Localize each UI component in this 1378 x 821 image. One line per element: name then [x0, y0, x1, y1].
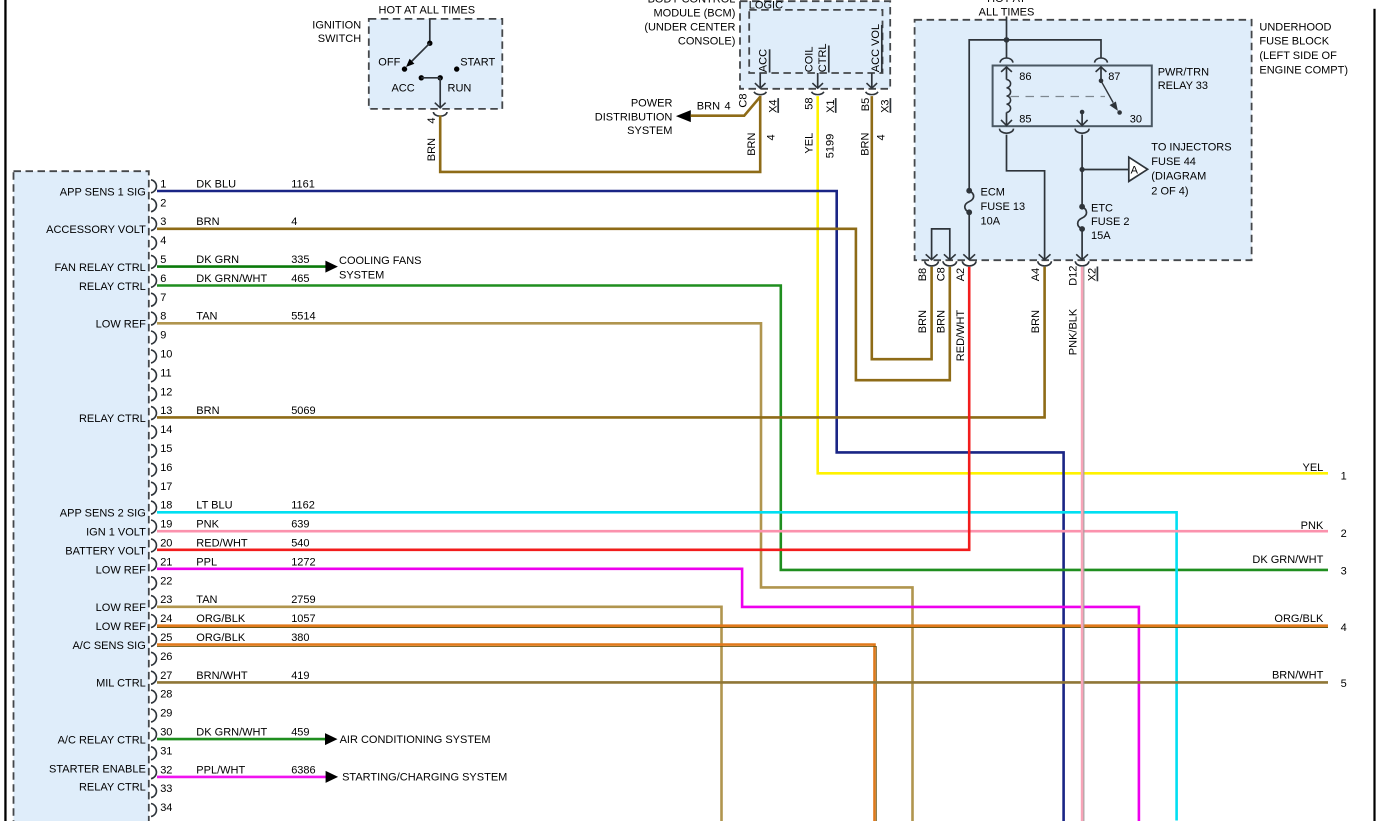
relay pin 85 arrow: [1001, 112, 1032, 125]
connector pin 29: [151, 708, 172, 722]
svg-text:SYSTEM: SYSTEM: [339, 269, 384, 281]
svg-text:APP SENS 1 SIG: APP SENS 1 SIG: [60, 186, 146, 198]
pin 23 wire labels TAN 2759: [196, 594, 315, 606]
pin 20 wire labels RED/WHT 540: [196, 538, 309, 550]
pin 19 wire labels PNK 639: [196, 519, 309, 531]
to injectors label: [1151, 142, 1231, 198]
svg-text:PWR/TRN: PWR/TRN: [1158, 67, 1209, 79]
svg-text:ETC: ETC: [1091, 202, 1113, 214]
svg-text:RELAY 33: RELAY 33: [1158, 80, 1208, 92]
svg-text:380: 380: [291, 632, 309, 644]
wire TAN 2759 pin 23: [157, 607, 722, 821]
svg-text:DK GRN/WHT: DK GRN/WHT: [1252, 554, 1323, 566]
svg-text:TAN: TAN: [196, 594, 217, 606]
connector pin 7: [151, 292, 166, 306]
svg-text:540: 540: [291, 538, 309, 550]
arrow to starting/charging system: [326, 771, 339, 783]
connector pin 2: [151, 197, 166, 211]
svg-text:1: 1: [1341, 471, 1347, 483]
svg-text:OFF: OFF: [378, 56, 400, 68]
connector pin 1: [151, 178, 166, 192]
wire RUN down to connector: [435, 78, 446, 108]
connector pin 6: [151, 273, 166, 287]
svg-text:18: 18: [160, 500, 172, 512]
BCM pin ACC VOL label: [870, 24, 882, 73]
svg-text:12: 12: [160, 386, 172, 398]
svg-text:BRN: BRN: [746, 133, 758, 156]
body control module BCM label: [644, 0, 735, 47]
connector pin 34: [151, 802, 172, 816]
svg-text:ACC: ACC: [758, 49, 770, 72]
svg-text:BODY CONTROL: BODY CONTROL: [648, 0, 736, 5]
contact RUN: [438, 75, 472, 94]
svg-text:26: 26: [160, 651, 172, 663]
svg-text:DK GRN: DK GRN: [196, 254, 239, 266]
svg-text:HOT AT: HOT AT: [987, 0, 1026, 5]
wire label BRN 4 (power dist): [697, 101, 731, 113]
BCM COIL CTRL arrow: [812, 73, 823, 88]
relay connector 87: [1095, 58, 1108, 63]
connector pin 19: [151, 519, 172, 533]
svg-text:32: 32: [160, 764, 172, 776]
connector pin 8: [151, 311, 166, 325]
relay contact 30: [1117, 110, 1142, 126]
junction node (injector tap): [1080, 167, 1085, 172]
underhood fuse block label: [1259, 22, 1348, 77]
connector pin 15: [151, 443, 172, 457]
svg-text:YEL: YEL: [1303, 462, 1324, 474]
svg-text:RUN: RUN: [448, 82, 472, 94]
off-page reference A (to injectors): [1129, 157, 1148, 181]
pin 32 wire labels PPL/WHT 6386: [196, 764, 315, 776]
svg-text:86: 86: [1019, 71, 1031, 83]
exit label PNK 2: [1301, 520, 1347, 540]
wire PNK 639 pin 19 to exit 2: [157, 530, 1328, 533]
svg-text:BRN: BRN: [1030, 310, 1042, 333]
svg-text:2759: 2759: [291, 594, 315, 606]
ignition switch label: [312, 19, 361, 45]
wire DK GRN/WHT 459 pin 30: [157, 738, 326, 741]
svg-text:19: 19: [160, 519, 172, 531]
svg-text:DK GRN/WHT: DK GRN/WHT: [196, 727, 267, 739]
contact OFF: [378, 56, 407, 71]
engine control module connector box: [14, 171, 149, 821]
wire BRN 4 pin 3 to fuse block C8: [157, 229, 950, 380]
svg-text:SYSTEM: SYSTEM: [627, 125, 672, 137]
connector pin 27: [151, 670, 172, 684]
pin 25 wire labels ORG/BLK 380: [196, 632, 309, 644]
svg-text:1161: 1161: [291, 178, 315, 190]
svg-text:BRN/WHT: BRN/WHT: [1272, 670, 1324, 682]
connector pin 28: [151, 689, 172, 703]
svg-text:RED/WHT: RED/WHT: [955, 310, 967, 362]
connector pin 13: [151, 405, 172, 419]
svg-text:PPL/WHT: PPL/WHT: [196, 764, 245, 776]
svg-text:87: 87: [1108, 71, 1120, 83]
svg-text:BRN: BRN: [860, 133, 872, 156]
BCM connector X3: [866, 92, 878, 95]
svg-text:AIR CONDITIONING SYSTEM: AIR CONDITIONING SYSTEM: [340, 734, 491, 746]
svg-text:APP SENS 2 SIG: APP SENS 2 SIG: [60, 508, 146, 520]
svg-text:FUSE 2: FUSE 2: [1091, 216, 1130, 228]
svg-text:2 OF 4): 2 OF 4): [1151, 185, 1188, 197]
svg-text:459: 459: [291, 727, 309, 739]
svg-text:419: 419: [291, 670, 309, 682]
fuse block connector B8: [925, 261, 939, 266]
jumper B8 to C8: [926, 229, 956, 260]
wire BRN 4 BCM X3 to fuse block B8: [872, 96, 932, 359]
svg-text:A/C SENS SIG: A/C SENS SIG: [72, 640, 145, 652]
svg-text:FUSE BLOCK: FUSE BLOCK: [1259, 36, 1329, 48]
svg-text:BRN: BRN: [196, 216, 219, 228]
connector pin 9: [151, 330, 166, 344]
connector pin 25: [151, 632, 172, 646]
svg-text:COIL: COIL: [803, 47, 815, 73]
svg-text:RELAY CTRL: RELAY CTRL: [79, 413, 146, 425]
pin 30 wire labels DK GRN/WHT 459: [196, 727, 309, 739]
relay pin 87 arrow: [1096, 67, 1121, 83]
connector pin 11: [151, 367, 172, 381]
svg-text:A2: A2: [955, 268, 967, 281]
BCM logic inner box: [749, 10, 882, 73]
pin 18 wire labels LT BLU 1162: [196, 500, 315, 512]
fuse block connector A4: [1038, 261, 1052, 266]
wire RED/WHT 540 fuse block A2 to pin 20: [157, 267, 969, 550]
relay switch blade: [1101, 81, 1118, 111]
svg-text:BRN: BRN: [426, 138, 438, 161]
connector pin 14: [151, 424, 172, 438]
connector pin 16: [151, 462, 172, 476]
svg-text:5514: 5514: [291, 311, 315, 323]
relay connector 30 (below): [1075, 129, 1089, 134]
wire ACC to RUN: [421, 77, 440, 79]
svg-text:TAN: TAN: [196, 311, 217, 323]
svg-text:BRN: BRN: [935, 310, 947, 333]
svg-text:28: 28: [160, 689, 172, 701]
svg-text:ECM: ECM: [981, 187, 1005, 199]
wire relay 85 to pin A4: [1007, 135, 1051, 260]
svg-text:LOW REF: LOW REF: [96, 621, 146, 633]
connector pin 10: [151, 349, 172, 363]
svg-text:11: 11: [160, 367, 171, 379]
svg-text:LOW REF: LOW REF: [96, 564, 146, 576]
svg-text:4: 4: [1341, 622, 1347, 634]
svg-text:BRN/WHT: BRN/WHT: [196, 670, 248, 682]
svg-text:RELAY CTRL: RELAY CTRL: [79, 781, 146, 793]
wire BRN 4 ignition to BCM X4: [440, 96, 760, 172]
BCM pin ACC label: [758, 49, 770, 73]
svg-text:58: 58: [804, 97, 816, 109]
pin 21 wire labels PPL 1272: [196, 556, 315, 568]
wire BRN/WHT 419 pin 27 to exit 5: [157, 681, 1328, 684]
svg-text:BATTERY VOLT: BATTERY VOLT: [65, 545, 146, 557]
svg-text:ACC VOL: ACC VOL: [870, 24, 882, 72]
svg-text:4: 4: [426, 117, 438, 123]
connector pin 18: [151, 500, 172, 514]
svg-text:6386: 6386: [291, 764, 315, 776]
svg-text:BRN: BRN: [697, 101, 720, 113]
svg-text:22: 22: [160, 575, 172, 587]
svg-text:20: 20: [160, 538, 172, 550]
wire ECM fuse to pin A2: [963, 212, 975, 259]
svg-text:465: 465: [291, 273, 309, 285]
svg-text:PNK: PNK: [1301, 520, 1324, 532]
svg-text:POWER: POWER: [631, 98, 673, 110]
wire tap to injectors: [1082, 169, 1128, 171]
svg-text:LT BLU: LT BLU: [196, 500, 232, 512]
svg-text:10: 10: [160, 349, 172, 361]
svg-text:A/C RELAY CTRL: A/C RELAY CTRL: [58, 734, 146, 746]
BCM ACC arrow: [755, 73, 766, 88]
pin label X1: [825, 98, 837, 113]
svg-text:CTRL: CTRL: [817, 43, 829, 72]
svg-text:(LEFT SIDE OF: (LEFT SIDE OF: [1259, 50, 1337, 62]
bus wire: [969, 40, 1101, 190]
connector pin 24: [151, 613, 172, 627]
wire ORG/BLK 1057 pin 24 to exit 4: [157, 626, 1328, 628]
connector pin 5: [151, 254, 166, 268]
svg-text:10A: 10A: [981, 215, 1001, 227]
svg-text:(UNDER CENTER: (UNDER CENTER: [644, 22, 735, 34]
connector pin 20: [151, 538, 172, 552]
svg-text:ORG/BLK: ORG/BLK: [1274, 613, 1324, 625]
wire PPL 1272 pin 21: [157, 569, 1139, 821]
feed wire into fuse block: [1006, 17, 1008, 40]
pin label X4: [767, 98, 779, 113]
relay pin 30 arrow: [1077, 110, 1088, 126]
relay coil: [1007, 80, 1011, 113]
svg-text:HOT AT ALL TIMES: HOT AT ALL TIMES: [379, 5, 476, 17]
svg-text:SWITCH: SWITCH: [318, 33, 361, 45]
svg-text:(DIAGRAM: (DIAGRAM: [1151, 171, 1206, 183]
svg-text:D12: D12: [1068, 266, 1080, 286]
svg-text:13: 13: [160, 405, 172, 417]
svg-text:LOW REF: LOW REF: [96, 602, 146, 614]
fuse ECM FUSE 13 10A: [965, 188, 974, 215]
connector pin 23: [151, 594, 172, 608]
contact START: [454, 56, 496, 71]
svg-text:3: 3: [1341, 565, 1347, 577]
connector pin 33: [151, 783, 172, 797]
svg-text:335: 335: [291, 254, 309, 266]
svg-text:TO INJECTORS: TO INJECTORS: [1151, 142, 1231, 154]
svg-text:1057: 1057: [291, 613, 315, 625]
wire PNK/BLK fuse block D12: [1082, 267, 1084, 821]
ignition feed wire: [429, 19, 431, 41]
exit label ORG/BLK 4: [1274, 613, 1346, 634]
ignition output connector: [433, 112, 447, 116]
svg-text:STARTER ENABLE: STARTER ENABLE: [49, 764, 146, 776]
pin 24 wire labels ORG/BLK 1057: [196, 613, 315, 625]
svg-text:STARTING/CHARGING SYSTEM: STARTING/CHARGING SYSTEM: [342, 772, 507, 784]
pin 27 wire labels BRN/WHT 419: [196, 670, 309, 682]
svg-text:2: 2: [1341, 528, 1347, 540]
svg-text:RELAY CTRL: RELAY CTRL: [79, 281, 146, 293]
relay connector 86: [1000, 58, 1013, 63]
fuse ETC FUSE 2 15A: [1078, 204, 1087, 232]
svg-text:17: 17: [160, 481, 172, 493]
svg-text:31: 31: [160, 745, 172, 757]
svg-text:1: 1: [160, 178, 166, 190]
svg-text:4: 4: [291, 216, 297, 228]
svg-text:27: 27: [160, 670, 172, 682]
svg-text:A: A: [1131, 164, 1139, 176]
connector pin 12: [151, 386, 172, 400]
svg-text:5069: 5069: [291, 405, 315, 417]
fuse block connector A2: [962, 261, 976, 266]
relay pin 86 arrow: [1001, 67, 1031, 83]
wire BRN 5069 pin 13 to fuse block A4: [157, 267, 1045, 418]
junction node: [1004, 37, 1010, 43]
fuse ETC label: [1091, 202, 1130, 242]
svg-text:15: 15: [160, 443, 172, 455]
arrow to cooling fans system: [325, 261, 338, 273]
exit label DK GRN/WHT 3: [1252, 554, 1346, 578]
svg-text:ORG/BLK: ORG/BLK: [196, 613, 246, 625]
pin 3 wire labels BRN 4: [196, 216, 297, 228]
svg-text:DK GRN/WHT: DK GRN/WHT: [196, 273, 267, 285]
svg-text:FUSE 44: FUSE 44: [1151, 156, 1196, 168]
relay dashed actuator link: [1011, 96, 1106, 98]
svg-text:1162: 1162: [291, 500, 315, 512]
svg-text:C8: C8: [738, 94, 750, 108]
underhood fuse block box: [915, 20, 1252, 260]
fuse block connector C8: [943, 261, 957, 266]
svg-text:23: 23: [160, 594, 172, 606]
svg-text:25: 25: [160, 632, 172, 644]
svg-text:PPL: PPL: [196, 556, 217, 568]
svg-text:4: 4: [875, 134, 887, 140]
svg-text:8: 8: [160, 311, 166, 323]
cooling fans system label: [339, 255, 422, 281]
connector pin 31: [151, 745, 172, 759]
svg-text:15A: 15A: [1091, 230, 1111, 242]
pin 8 wire labels TAN 5514: [196, 311, 315, 323]
relay PWR/TRN RELAY 33 box: [993, 66, 1152, 127]
svg-text:CONSOLE): CONSOLE): [678, 35, 735, 47]
svg-text:33: 33: [160, 783, 172, 795]
svg-text:4: 4: [160, 235, 166, 247]
svg-text:FUSE 13: FUSE 13: [981, 201, 1026, 213]
svg-text:PNK/BLK: PNK/BLK: [1068, 308, 1080, 355]
wire DK BLU 1161 pin 1: [157, 191, 1064, 821]
pin 32 function label: [49, 764, 146, 794]
svg-text:DK BLU: DK BLU: [196, 178, 236, 190]
svg-text:ACC: ACC: [391, 82, 414, 94]
svg-text:21: 21: [160, 556, 172, 568]
svg-text:5: 5: [1341, 678, 1347, 690]
connector pin 26: [151, 651, 172, 665]
BCM ACC VOL arrow: [867, 73, 878, 88]
svg-text:COOLING FANS: COOLING FANS: [339, 255, 422, 267]
svg-text:ORG/BLK: ORG/BLK: [196, 632, 246, 644]
connector pin 22: [151, 575, 172, 589]
connector pin 32: [151, 764, 172, 778]
exit label YEL 1: [1303, 462, 1347, 483]
svg-text:24: 24: [160, 613, 172, 625]
pin label X3: [880, 98, 892, 113]
connector pin 3: [151, 216, 166, 230]
svg-text:BRN: BRN: [196, 405, 219, 417]
svg-text:START: START: [460, 56, 495, 68]
wire LT BLU 1162 pin 18: [157, 512, 1177, 820]
wire PPL/WHT 6386 pin 32: [157, 776, 327, 779]
svg-text:ENGINE COMPT): ENGINE COMPT): [1259, 65, 1348, 77]
pin 6 wire labels DK GRN/WHT 465: [196, 273, 309, 285]
svg-text:LOW REF: LOW REF: [96, 319, 146, 331]
svg-text:9: 9: [160, 330, 166, 342]
pin 13 wire labels BRN 5069: [196, 405, 315, 417]
svg-text:2: 2: [160, 197, 166, 209]
BCM outer box: [740, 1, 890, 89]
svg-text:DISTRIBUTION: DISTRIBUTION: [595, 111, 673, 123]
wire ETC fuse to pin D12: [1076, 229, 1088, 260]
connector pin 21: [151, 556, 172, 570]
svg-text:85: 85: [1019, 114, 1031, 126]
svg-text:639: 639: [291, 519, 309, 531]
svg-text:RED/WHT: RED/WHT: [196, 538, 248, 550]
svg-text:MODULE (BCM): MODULE (BCM): [654, 7, 736, 19]
arrow to air conditioning system: [325, 733, 338, 745]
wire ORG/BLK 380 pin 25: [157, 645, 876, 821]
svg-text:6: 6: [160, 273, 166, 285]
power label HOT AT ALL TIMES (fuse block): [979, 0, 1035, 18]
BCM connector X4: [754, 92, 766, 95]
contact ACC: [391, 75, 424, 94]
connector pin 30: [151, 727, 172, 741]
wire DK GRN 335 pin 5: [157, 265, 326, 268]
wire YEL 5199 BCM X1 to exit 1: [818, 96, 1328, 473]
wire DK GRN/WHT 465 pin 6 to exit 3: [157, 286, 1328, 570]
wire BRN 4 branch to power distribution: [691, 97, 761, 116]
svg-text:5199: 5199: [825, 134, 837, 158]
svg-text:FAN RELAY CTRL: FAN RELAY CTRL: [55, 262, 146, 274]
svg-text:C8: C8: [935, 267, 947, 281]
connector pin 4: [151, 235, 166, 249]
svg-text:ACCESSORY VOLT: ACCESSORY VOLT: [46, 224, 146, 236]
svg-text:UNDERHOOD: UNDERHOOD: [1259, 22, 1331, 34]
svg-text:30: 30: [1130, 114, 1142, 126]
arrow to power distribution: [676, 110, 691, 122]
pin 5 wire labels DK GRN 335: [196, 254, 309, 266]
svg-text:B8: B8: [917, 268, 929, 281]
BCM connector X1: [812, 92, 824, 95]
svg-text:1272: 1272: [291, 556, 315, 568]
svg-text:MIL CTRL: MIL CTRL: [96, 678, 146, 690]
wire relay 30 down: [1081, 135, 1083, 206]
pin label X2: [1087, 267, 1099, 282]
fuse block connector D12: [1075, 261, 1089, 266]
svg-text:A4: A4: [1030, 268, 1042, 281]
svg-text:4: 4: [725, 101, 731, 113]
svg-text:YEL: YEL: [803, 133, 815, 154]
ignition switch box: [369, 19, 503, 109]
svg-text:BRN: BRN: [917, 310, 929, 333]
connector pin 17: [151, 481, 172, 495]
svg-text:29: 29: [160, 708, 172, 720]
svg-text:PNK: PNK: [196, 519, 219, 531]
relay label: [1158, 67, 1209, 92]
svg-text:16: 16: [160, 462, 172, 474]
svg-text:B5: B5: [860, 98, 872, 111]
svg-text:3: 3: [160, 216, 166, 228]
svg-text:IGN 1 VOLT: IGN 1 VOLT: [86, 527, 146, 539]
ignition pivot node: [427, 41, 432, 46]
ignition switch blade to OFF: [406, 43, 430, 67]
svg-text:30: 30: [160, 727, 172, 739]
exit label BRN/WHT 5: [1272, 670, 1347, 690]
svg-text:7: 7: [160, 292, 166, 304]
